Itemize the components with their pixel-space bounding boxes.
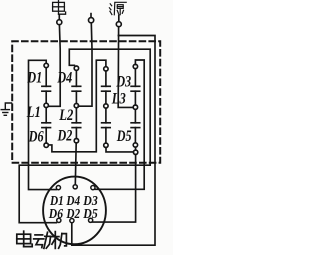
svg-text:L3: L3 bbox=[111, 91, 126, 108]
label 电 (supply char 1, drawn strokes) bbox=[53, 1, 66, 15]
svg-text:D4: D4 bbox=[57, 70, 73, 87]
wire: stud D3 bracket right, down to motor dot D3 bbox=[95, 60, 144, 189]
stud label D1 bbox=[27, 70, 43, 87]
wire supply L2 down to stud L2 bbox=[78, 23, 92, 106]
stud label D3 bbox=[115, 74, 131, 91]
stud column spare/unlabeled bbox=[102, 67, 111, 148]
wire: stud D5 down right side to motor dot D5 bbox=[93, 155, 136, 223]
wire supply L3 down to stud L3 bbox=[118, 27, 133, 108]
stud label L1 bbox=[26, 104, 41, 121]
motor circle bbox=[43, 177, 106, 245]
svg-text:L2: L2 bbox=[59, 107, 74, 124]
svg-text:D5: D5 bbox=[116, 128, 132, 145]
supply terminal 1 bbox=[57, 14, 62, 24]
supply terminal 2 bbox=[89, 14, 94, 23]
dashed terminal-box border bbox=[12, 41, 160, 163]
motor terminal dot D3 bbox=[91, 186, 95, 190]
wire: stud D4 jog to long loop, down right, under box, down left, to motor dot D6 bbox=[19, 49, 150, 223]
label 电动机 (motor), drawn strokes: 电 bbox=[17, 231, 32, 246]
motor label row D1 D4 D3 bbox=[49, 193, 98, 208]
wire: spare stud (col C) bottom link to stud D5 lower circle bbox=[106, 148, 134, 152]
stud label L2 bbox=[59, 107, 74, 124]
svg-text:D2: D2 bbox=[66, 206, 81, 221]
svg-text:D5: D5 bbox=[82, 206, 98, 221]
svg-text:D3: D3 bbox=[115, 74, 131, 91]
svg-text:D6: D6 bbox=[48, 206, 63, 221]
svg-text:L1: L1 bbox=[26, 104, 41, 121]
wire: spare stud (col C) bracket left and down to stud D6 bbox=[48, 60, 106, 152]
label 电动机: 机 bbox=[52, 232, 67, 249]
motor label row D6 D2 D5 bbox=[48, 206, 98, 221]
stud column D4/L2/D2 bbox=[72, 66, 81, 143]
motor terminal dot D2 bbox=[70, 219, 74, 223]
motor terminal dot D6 bbox=[57, 218, 61, 222]
stud column D3/L3/D5 bbox=[131, 64, 140, 154]
stud label L3 bbox=[111, 91, 126, 108]
svg-text:D6: D6 bbox=[28, 129, 44, 146]
wire: stud D2 straight down to motor dot D4 bbox=[74, 143, 77, 185]
motor terminal dot D1 bbox=[56, 186, 60, 190]
supply terminal 3 bbox=[116, 15, 121, 27]
label 电动机: 动 bbox=[34, 232, 51, 248]
ground symbol on box left edge bbox=[1, 103, 11, 115]
svg-text:D2: D2 bbox=[57, 128, 73, 145]
wire supply L1 down to stud L1 bbox=[48, 25, 60, 107]
wire: stud D1 top bracket, down left side to motor dot D1 bbox=[29, 60, 57, 189]
stud label D2 bbox=[57, 128, 73, 145]
stud label D4 bbox=[57, 70, 73, 87]
label 源 (supply char 2, drawn strokes) bbox=[109, 2, 126, 15]
stud label D6 bbox=[28, 129, 44, 146]
stud label D5 bbox=[116, 128, 132, 145]
svg-text:D1: D1 bbox=[27, 70, 43, 87]
motor terminal dot D5 bbox=[89, 218, 93, 222]
stud column D1/L1/D6 bbox=[42, 63, 51, 147]
motor terminal dot D4 bbox=[73, 185, 77, 189]
wire neutral branch: right edge down, bottom edge, up to motor dot D2 bbox=[72, 36, 155, 246]
